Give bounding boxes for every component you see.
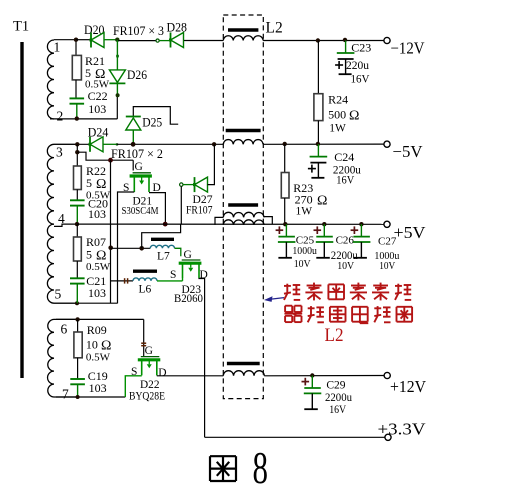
svg-text:+12V: +12V <box>390 377 427 396</box>
red annotation text line1 <box>284 285 291 287</box>
diode D26 <box>109 70 125 84</box>
node C25 <box>283 222 287 226</box>
diode D20 <box>90 33 105 48</box>
wire <box>159 40 171 42</box>
wire <box>77 319 79 332</box>
wire D26 cathode lead <box>116 84 118 96</box>
node C27 <box>359 222 363 226</box>
svg-text:G: G <box>184 249 192 261</box>
inductor L7 <box>150 245 174 248</box>
wire D21 source down <box>118 192 135 303</box>
wire row4 +5V rail <box>77 223 384 225</box>
wire to L7 <box>111 247 151 249</box>
svg-text:BYQ28E: BYQ28E <box>129 389 165 403</box>
transformer L2 dashed box <box>223 15 263 399</box>
core bar L2-w4 <box>227 362 260 366</box>
wire <box>284 198 286 224</box>
node 4 <box>75 222 79 226</box>
node 6 <box>75 317 79 321</box>
wire D22 source <box>125 376 141 397</box>
title figure 8 <box>210 455 236 457</box>
T1 winding 1-2 <box>47 40 54 119</box>
svg-text:C26: C26 <box>336 235 355 247</box>
svg-text:L2: L2 <box>325 325 344 346</box>
transistor D21 <box>130 173 152 192</box>
svg-text:D: D <box>158 367 166 379</box>
terminal +5V <box>384 221 390 227</box>
wire <box>117 40 156 42</box>
diode D27 <box>193 177 208 192</box>
wire D25 hook <box>133 107 178 125</box>
node R21-row1 <box>74 38 78 42</box>
node C26 <box>322 222 326 226</box>
node C21-row5 <box>75 301 79 305</box>
svg-text:C23: C23 <box>351 41 371 55</box>
svg-text:B2060: B2060 <box>174 291 203 305</box>
svg-text:10V: 10V <box>379 260 395 272</box>
svg-text:C22: C22 <box>88 89 108 103</box>
capacitor C27 <box>351 224 371 258</box>
tick mark 1 <box>124 278 126 283</box>
L2 winding w2 <box>223 140 263 145</box>
wire <box>76 206 78 225</box>
wire L6 to D23 source <box>157 280 183 282</box>
wire <box>284 144 286 173</box>
svg-text:7: 7 <box>62 387 69 402</box>
svg-text:−5V: −5V <box>393 142 423 161</box>
diode D28 <box>169 33 184 48</box>
svg-text:8: 8 <box>253 442 269 490</box>
wire node-A vertical <box>110 160 112 303</box>
terminal +12V <box>384 372 390 378</box>
wire <box>76 39 91 41</box>
svg-text:0.5W: 0.5W <box>86 352 111 364</box>
wire <box>54 39 76 41</box>
svg-text:FR107 × 3: FR107 × 3 <box>113 23 164 38</box>
wire row2 <box>50 118 117 120</box>
svg-text:270: 270 <box>295 193 313 207</box>
wire row1 right <box>263 40 384 42</box>
svg-text:1000u: 1000u <box>292 245 317 257</box>
svg-text:S30SC4M: S30SC4M <box>122 205 159 217</box>
node R23 top <box>283 142 287 146</box>
node row1-D26 <box>115 38 119 42</box>
resistor R21 <box>72 55 81 80</box>
svg-text:L6: L6 <box>139 284 152 296</box>
svg-text:3: 3 <box>56 145 63 160</box>
T1 winding 3-4 <box>47 144 54 224</box>
resistor R22 <box>74 166 82 190</box>
wire row3 right <box>263 143 384 145</box>
svg-text:10V: 10V <box>294 258 311 270</box>
wire <box>54 143 77 145</box>
wire tap 4 jog <box>54 224 77 226</box>
svg-text:−12V: −12V <box>391 39 425 58</box>
svg-text:D: D <box>200 269 208 281</box>
svg-text:6: 6 <box>61 322 68 337</box>
terminal -12V <box>384 37 390 43</box>
diode D24 <box>89 137 104 152</box>
svg-text:1: 1 <box>54 40 61 55</box>
node D25-row3 <box>131 142 136 147</box>
node A-L7 <box>108 246 113 251</box>
svg-text:1W: 1W <box>296 206 313 218</box>
svg-text:L2: L2 <box>266 20 283 37</box>
wire C22 bottom lead <box>76 104 78 119</box>
resistor R09 <box>74 332 82 358</box>
wire R21 top lead <box>75 40 77 56</box>
terminal -5V <box>384 141 390 147</box>
core bar L7 <box>151 238 174 241</box>
svg-text:S: S <box>170 269 176 281</box>
transistor D23 <box>179 260 202 278</box>
node D26 bottom <box>116 93 120 97</box>
wire <box>76 224 78 237</box>
L2 winding w3a <box>223 212 264 217</box>
wire D26 anode lead <box>116 40 118 70</box>
wire <box>77 384 79 397</box>
wire L7 to D23 gate <box>175 248 181 256</box>
node D27-row3 <box>212 142 216 146</box>
capacitor C24 <box>308 144 327 178</box>
wire row7 stub <box>54 396 78 398</box>
svg-text:D26: D26 <box>127 68 147 82</box>
wire w3 left step <box>215 217 223 225</box>
capacitor C22 <box>70 98 85 103</box>
svg-text:10: 10 <box>86 338 98 352</box>
svg-text:16V: 16V <box>329 404 347 416</box>
wire D22 drain to L2 <box>157 375 224 377</box>
svg-text:4: 4 <box>58 211 65 226</box>
svg-text:D24: D24 <box>88 125 109 140</box>
node L7 left <box>139 246 144 251</box>
svg-text:10V: 10V <box>337 260 354 272</box>
L2 winding w4 <box>223 371 264 376</box>
svg-text:T1: T1 <box>13 19 29 35</box>
svg-text:16V: 16V <box>351 72 370 86</box>
wire row5 <box>54 302 118 304</box>
wire gate lead <box>132 160 134 170</box>
svg-text:G: G <box>145 345 153 357</box>
svg-text:+3.3V: +3.3V <box>378 420 427 439</box>
svg-text:L7: L7 <box>157 251 170 263</box>
svg-text:103: 103 <box>88 102 106 116</box>
wire L7 tap to row4 <box>142 224 181 248</box>
svg-text:+5V: +5V <box>394 223 427 242</box>
node 3 <box>75 142 79 146</box>
capacitor C23 <box>335 41 354 75</box>
wire to L2 <box>184 40 223 42</box>
resistor R07 <box>74 237 82 261</box>
wire D22 gate lead <box>143 319 145 356</box>
svg-text:1W: 1W <box>329 123 346 135</box>
svg-text:16V: 16V <box>336 173 354 187</box>
svg-text:5: 5 <box>55 287 62 302</box>
core bar L2-w1 <box>228 28 258 32</box>
node C19-row7 <box>76 395 80 399</box>
tick mark 2 <box>127 278 129 283</box>
svg-text:C27: C27 <box>378 236 397 248</box>
svg-text:C29: C29 <box>326 380 345 392</box>
wire D25 to row3 <box>132 130 134 144</box>
wire gate drive D21 <box>77 152 133 160</box>
wire +12V row <box>264 375 384 377</box>
wire row7 <box>56 396 125 398</box>
svg-text:R24: R24 <box>328 93 348 107</box>
resistor R23 <box>281 173 289 199</box>
connector circle D27 <box>180 183 183 186</box>
wire <box>54 318 78 320</box>
svg-text:Ω: Ω <box>349 109 359 124</box>
node C29 <box>310 373 314 377</box>
svg-text:D20: D20 <box>84 23 105 37</box>
wire D27 to row3 <box>208 144 215 184</box>
svg-text:103: 103 <box>89 381 107 395</box>
wire <box>182 278 184 281</box>
svg-text:D25: D25 <box>142 116 162 130</box>
capacitor C26 <box>314 224 334 258</box>
wire <box>104 39 117 41</box>
wire to L6 <box>111 280 134 282</box>
wire D27 to row4 <box>180 186 182 224</box>
node R24 top <box>316 38 320 42</box>
core bar L2-w2 <box>226 129 261 133</box>
wire <box>76 284 78 304</box>
wire <box>103 143 117 145</box>
terminal +3.3V <box>385 434 391 440</box>
wire w3 right step <box>264 217 272 225</box>
svg-text:0.5W: 0.5W <box>86 261 111 273</box>
diode D25 <box>126 117 141 131</box>
wire <box>77 358 79 379</box>
capacitor C21 <box>70 278 85 283</box>
capacitor C25 <box>276 224 296 258</box>
L2 winding w1 <box>223 36 263 41</box>
L2 winding w3b <box>223 220 264 225</box>
tick mark 4 <box>141 345 146 347</box>
tick mark 3 <box>141 342 146 344</box>
svg-text:G: G <box>135 161 143 173</box>
wire <box>76 261 78 278</box>
svg-text:220u: 220u <box>346 58 369 72</box>
wire <box>75 80 77 99</box>
annotation arrow <box>267 298 284 300</box>
capacitor C19 <box>70 379 85 384</box>
svg-text:103: 103 <box>88 286 106 300</box>
wire <box>76 144 78 166</box>
wire <box>183 184 195 186</box>
svg-text:500: 500 <box>328 108 346 122</box>
resistor R24 <box>314 94 323 121</box>
wire D21 drain down <box>149 193 165 225</box>
wire <box>317 41 319 94</box>
node gate-A <box>108 158 113 163</box>
core bar L6 <box>133 270 157 273</box>
wire row3 <box>54 143 90 145</box>
svg-text:R09: R09 <box>87 323 107 337</box>
node C22-row2 <box>75 116 79 120</box>
svg-text:103: 103 <box>88 207 106 221</box>
svg-text:FR107: FR107 <box>186 203 213 217</box>
node D21 drain-row4 <box>163 222 168 227</box>
transformer T1 core <box>20 42 23 378</box>
capacitor C20 <box>70 200 85 205</box>
svg-text:5: 5 <box>86 176 92 190</box>
core bar L2-w3 <box>228 203 258 207</box>
transistor D22 <box>138 357 161 376</box>
T1 winding 6-7 <box>48 319 54 397</box>
inductor L6 <box>133 278 157 281</box>
svg-text:2200u: 2200u <box>325 392 352 404</box>
wire <box>317 121 319 144</box>
svg-text:Ω: Ω <box>317 194 327 209</box>
wire row5 stub <box>54 302 77 304</box>
node C24 <box>316 142 320 146</box>
wire <box>76 190 78 201</box>
wire row2 up to D26 <box>116 95 118 119</box>
T1 winding 4-5 <box>47 224 54 303</box>
red annotation text line2 <box>285 305 292 307</box>
node gate tap <box>75 150 79 154</box>
connector circle row1 <box>156 39 159 42</box>
capacitor C29 <box>302 376 322 410</box>
svg-text:5: 5 <box>86 248 92 262</box>
wire +3.3V row <box>205 436 385 438</box>
wire row6 <box>56 318 144 320</box>
wire D23 drain down <box>199 278 205 437</box>
node C23 <box>343 38 347 42</box>
svg-text:2: 2 <box>57 109 64 124</box>
wire row3 to L2 <box>117 143 223 145</box>
svg-text:FR107 × 2: FR107 × 2 <box>111 146 163 161</box>
